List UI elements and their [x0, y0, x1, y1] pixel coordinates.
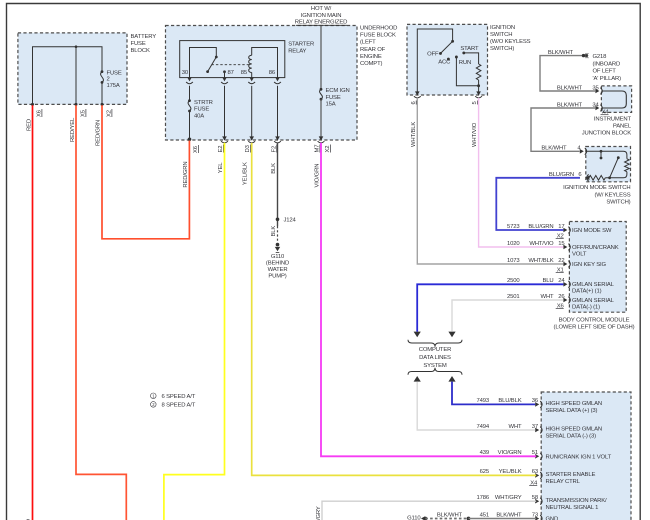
- svg-text:PANEL: PANEL: [613, 124, 632, 130]
- svg-text:51: 51: [532, 450, 538, 456]
- svg-text:YEL/BLK: YEL/BLK: [243, 162, 249, 185]
- svg-text:BLU/GRN: BLU/GRN: [528, 224, 553, 230]
- svg-text:OFF/RUN/CRANK: OFF/RUN/CRANK: [572, 245, 619, 251]
- svg-text:2: 2: [107, 77, 110, 83]
- svg-text:G110: G110: [407, 516, 421, 520]
- svg-text:YEL/BLK: YEL/BLK: [499, 469, 522, 475]
- svg-text:17: 17: [558, 224, 564, 230]
- svg-text:IGNITION: IGNITION: [490, 25, 515, 31]
- svg-text:START: START: [460, 46, 479, 52]
- svg-text:RELAY: RELAY: [288, 49, 306, 55]
- svg-text:BLK/WHT: BLK/WHT: [548, 50, 574, 56]
- svg-text:WATER: WATER: [268, 267, 288, 273]
- svg-text:UNDERHOOD: UNDERHOOD: [360, 26, 397, 32]
- svg-text:37: 37: [532, 424, 538, 430]
- svg-text:VIO/GRN: VIO/GRN: [498, 450, 522, 456]
- svg-text:WHT/GRY: WHT/GRY: [316, 506, 322, 520]
- svg-text:SWITCH: SWITCH: [490, 32, 512, 38]
- svg-text:ACC: ACC: [438, 60, 451, 66]
- svg-text:HIGH SPEED GMLAN: HIGH SPEED GMLAN: [546, 427, 603, 433]
- svg-text:J124: J124: [284, 218, 297, 224]
- svg-text:7493: 7493: [476, 398, 489, 404]
- svg-text:G110: G110: [271, 254, 285, 260]
- svg-text:BLOCK: BLOCK: [131, 48, 150, 54]
- svg-text:FUSE BLOCK: FUSE BLOCK: [360, 33, 396, 39]
- svg-text:ECM IGN: ECM IGN: [326, 88, 350, 94]
- svg-text:625: 625: [480, 469, 490, 475]
- svg-text:GMLAN SERIAL: GMLAN SERIAL: [572, 298, 615, 304]
- svg-text:(INBOARD: (INBOARD: [593, 61, 621, 67]
- svg-text:SERIAL DATA (+) (3): SERIAL DATA (+) (3): [546, 408, 598, 414]
- svg-text:RELAY ENERGIZED: RELAY ENERGIZED: [295, 19, 348, 25]
- svg-text:15: 15: [558, 241, 565, 247]
- svg-text:YEL: YEL: [218, 162, 224, 174]
- svg-text:73: 73: [532, 512, 539, 518]
- svg-text:TRANSMISSION PARK/: TRANSMISSION PARK/: [546, 498, 608, 504]
- svg-text:BLK: BLK: [271, 226, 277, 237]
- svg-text:FUSE: FUSE: [131, 41, 146, 47]
- svg-text:1073: 1073: [507, 258, 520, 264]
- svg-text:STRTR: STRTR: [194, 100, 213, 106]
- svg-text:1020: 1020: [507, 241, 520, 247]
- svg-text:IGNITION MODE SWITCH: IGNITION MODE SWITCH: [563, 185, 630, 191]
- svg-text:HIGH SPEED GMLAN: HIGH SPEED GMLAN: [546, 401, 603, 407]
- svg-text:RUN: RUN: [459, 60, 471, 66]
- svg-text:SWITCH): SWITCH): [490, 46, 514, 52]
- svg-text:DATA LINES: DATA LINES: [419, 355, 451, 361]
- svg-text:40A: 40A: [194, 113, 204, 119]
- svg-text:BLK: BLK: [271, 163, 277, 174]
- svg-text:85: 85: [241, 70, 248, 76]
- svg-text:WHT/BLK: WHT/BLK: [411, 122, 417, 147]
- svg-text:30: 30: [182, 70, 189, 76]
- svg-text:RELAY CTRL: RELAY CTRL: [546, 479, 581, 485]
- svg-text:DATA(-) (1): DATA(-) (1): [572, 304, 600, 310]
- svg-text:HOT W/: HOT W/: [311, 6, 332, 12]
- svg-text:IGNITION MAIN: IGNITION MAIN: [301, 13, 342, 19]
- svg-text:BLU/BLK: BLU/BLK: [498, 398, 521, 404]
- svg-text:(LOWER LEFT SIDE OF DASH): (LOWER LEFT SIDE OF DASH): [554, 325, 635, 331]
- svg-text:IGN KEY SIG: IGN KEY SIG: [572, 262, 606, 268]
- svg-text:SWITCH): SWITCH): [606, 200, 630, 206]
- svg-text:22: 22: [558, 258, 564, 264]
- svg-text:BATTERY: BATTERY: [131, 34, 157, 40]
- svg-text:35: 35: [592, 85, 599, 91]
- svg-text:6 SPEED A/T: 6 SPEED A/T: [162, 394, 196, 400]
- svg-text:(LEFT: (LEFT: [360, 40, 376, 46]
- svg-text:2500: 2500: [507, 278, 520, 284]
- svg-text:BLU: BLU: [542, 278, 553, 284]
- svg-text:STARTER: STARTER: [288, 42, 314, 48]
- svg-text:BLK/WHT: BLK/WHT: [541, 146, 567, 152]
- svg-text:JUNCTION BLOCK: JUNCTION BLOCK: [582, 131, 632, 137]
- svg-text:7494: 7494: [476, 424, 489, 430]
- svg-text:451: 451: [480, 512, 489, 518]
- svg-text:BLK/WHT: BLK/WHT: [557, 85, 583, 91]
- svg-text:PUMP): PUMP): [268, 274, 286, 280]
- svg-text:175A: 175A: [107, 83, 120, 89]
- svg-text:BLK/WHT: BLK/WHT: [496, 512, 522, 518]
- svg-text:'A' PILLAR): 'A' PILLAR): [593, 76, 622, 82]
- svg-text:439: 439: [480, 450, 489, 456]
- svg-text:(BEHIND: (BEHIND: [266, 260, 289, 266]
- svg-text:(W/O KEYLESS: (W/O KEYLESS: [490, 39, 531, 45]
- svg-text:OFF: OFF: [427, 52, 439, 58]
- svg-text:G218: G218: [593, 54, 608, 60]
- svg-text:INSTRUMENT: INSTRUMENT: [594, 117, 632, 123]
- svg-text:NEUTRAL SIGNAL 1: NEUTRAL SIGNAL 1: [546, 505, 599, 511]
- svg-text:GND: GND: [546, 517, 559, 520]
- svg-text:15A: 15A: [326, 102, 336, 108]
- svg-text:2501: 2501: [507, 294, 520, 300]
- svg-text:IGN MODE SW: IGN MODE SW: [572, 228, 612, 234]
- svg-text:RED/GRN: RED/GRN: [96, 120, 102, 146]
- svg-text:DATA(+) (1): DATA(+) (1): [572, 289, 602, 295]
- svg-text:(W/ KEYLESS: (W/ KEYLESS: [595, 192, 631, 198]
- svg-text:COMPT): COMPT): [360, 61, 383, 67]
- svg-text:GMLAN SERIAL: GMLAN SERIAL: [572, 282, 615, 288]
- svg-text:WHT: WHT: [541, 294, 555, 300]
- svg-text:87: 87: [228, 70, 234, 76]
- svg-text:1786: 1786: [476, 495, 489, 501]
- svg-text:FUSE: FUSE: [107, 71, 122, 77]
- svg-text:WHT: WHT: [509, 424, 523, 430]
- svg-text:5723: 5723: [507, 224, 520, 230]
- svg-text:WHT/VIO: WHT/VIO: [529, 241, 554, 247]
- svg-text:RED: RED: [27, 119, 33, 131]
- svg-text:BLK/WHT: BLK/WHT: [437, 512, 463, 518]
- svg-text:36: 36: [532, 398, 539, 404]
- svg-text:WHT/BLK: WHT/BLK: [528, 258, 553, 264]
- svg-text:ENGINE: ENGINE: [360, 54, 382, 60]
- svg-text:RED/YEL: RED/YEL: [70, 117, 76, 142]
- svg-text:86: 86: [269, 70, 276, 76]
- svg-text:WHT/VIO: WHT/VIO: [472, 122, 478, 147]
- svg-text:BLU/GRN: BLU/GRN: [549, 172, 574, 178]
- svg-text:VIO/GRN: VIO/GRN: [315, 164, 321, 188]
- svg-text:WHT/GRY: WHT/GRY: [495, 495, 522, 501]
- svg-text:RUN/CRANK IGN 1 VOLT: RUN/CRANK IGN 1 VOLT: [546, 454, 612, 460]
- svg-text:OF LEFT: OF LEFT: [593, 69, 617, 75]
- svg-text:FUSE: FUSE: [326, 95, 341, 101]
- svg-text:REAR OF: REAR OF: [360, 47, 386, 53]
- svg-text:SYSTEM: SYSTEM: [423, 363, 447, 369]
- svg-text:24: 24: [558, 278, 565, 284]
- svg-text:BODY CONTROL MODULE: BODY CONTROL MODULE: [559, 317, 630, 323]
- svg-text:FUSE: FUSE: [194, 107, 209, 113]
- svg-text:RED/GRN: RED/GRN: [183, 161, 189, 187]
- svg-text:VOLT: VOLT: [572, 251, 587, 257]
- svg-text:STARTER ENABLE: STARTER ENABLE: [546, 472, 596, 478]
- svg-text:COMPUTER: COMPUTER: [419, 347, 452, 353]
- svg-text:8 SPEED A/T: 8 SPEED A/T: [162, 402, 196, 408]
- svg-text:58: 58: [532, 495, 539, 501]
- svg-text:SERIAL DATA (-) (3): SERIAL DATA (-) (3): [546, 434, 597, 440]
- svg-text:26: 26: [558, 294, 565, 300]
- svg-text:63: 63: [532, 469, 539, 475]
